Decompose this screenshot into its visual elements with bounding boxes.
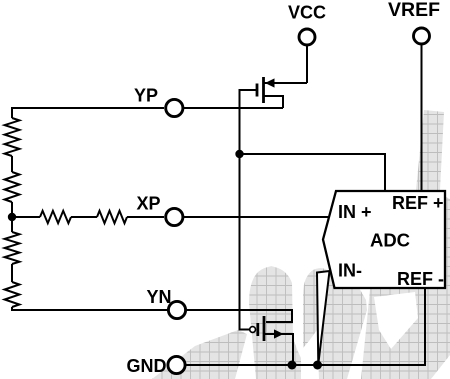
wire GND rail xyxy=(186,289,425,365)
transistor Q1 xyxy=(257,77,307,108)
svg-text:ADC: ADC xyxy=(370,230,410,251)
node GND terminal xyxy=(127,356,186,376)
svg-text:YP: YP xyxy=(134,86,158,106)
wire xyxy=(11,264,13,282)
wire gate bus (Q1 gate to Q2 gate) xyxy=(240,90,257,330)
resistor left chain segment 1 (YP to XP tap) xyxy=(5,118,20,156)
resistor XP series 2 xyxy=(97,211,127,223)
wire YN to Q2 drain xyxy=(187,310,292,322)
node XP terminal xyxy=(137,194,183,226)
wire VREF to ADC REF+ xyxy=(421,45,423,191)
wire Q1 drain to VCC xyxy=(306,46,308,83)
wire junction to ADC REF+ xyxy=(240,154,386,191)
op-amp U1 ADC block xyxy=(323,191,445,289)
resistor XP series 1 xyxy=(40,211,71,223)
wire YP to Q1 source xyxy=(184,107,283,109)
svg-text:YN: YN xyxy=(147,287,172,307)
transistor Q2 xyxy=(250,316,293,365)
wire xyxy=(11,156,13,172)
wire xyxy=(11,202,13,232)
svg-text:GND: GND xyxy=(127,356,167,376)
wire YP-net left corner xyxy=(12,108,164,118)
wire IN- wedge xyxy=(317,271,330,364)
node YP terminal xyxy=(134,86,183,117)
wire YN-net left corner xyxy=(12,307,167,310)
wire xyxy=(127,216,164,218)
node gate bus to REF+ junction xyxy=(235,150,243,158)
svg-text:REF -: REF - xyxy=(397,269,444,289)
svg-text:XP: XP xyxy=(137,194,161,214)
resistor left chain segment 3 (XP tap to YN) xyxy=(5,232,20,264)
svg-text:VCC: VCC xyxy=(288,3,326,23)
wire xyxy=(12,216,40,218)
wire xyxy=(71,216,97,218)
svg-text:VREF: VREF xyxy=(388,0,440,21)
watermark xyxy=(152,110,450,379)
node Q2 source junction xyxy=(288,361,297,370)
node YN terminal xyxy=(147,287,186,319)
svg-text:IN-: IN- xyxy=(338,261,362,281)
svg-text:REF +: REF + xyxy=(392,193,444,213)
resistor left chain segment 4 xyxy=(5,282,20,307)
node VREF terminal xyxy=(388,0,440,44)
node VCC terminal xyxy=(288,3,326,46)
node IN- junction xyxy=(313,361,322,370)
svg-text:IN +: IN + xyxy=(338,202,372,222)
node XP tap junction xyxy=(8,213,16,221)
wire XP to ADC IN+ xyxy=(184,216,330,218)
resistor left chain segment 2 xyxy=(5,172,20,202)
